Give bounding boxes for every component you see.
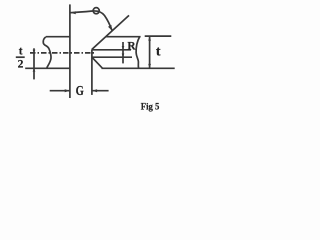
svg-text:R: R	[127, 40, 136, 52]
svg-text:G: G	[76, 84, 84, 99]
svg-text:Fig 5: Fig 5	[141, 101, 160, 111]
svg-text:2: 2	[18, 59, 24, 71]
svg-text:t: t	[19, 45, 23, 57]
svg-text:t: t	[156, 44, 161, 59]
